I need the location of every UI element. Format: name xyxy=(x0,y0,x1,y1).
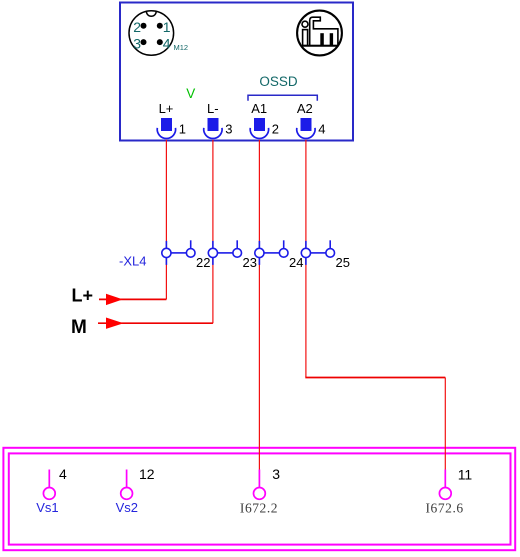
svg-text:OSSD: OSSD xyxy=(259,74,298,89)
svg-text:Vs1: Vs1 xyxy=(36,500,58,515)
svg-text:L+: L+ xyxy=(159,101,174,116)
svg-text:12: 12 xyxy=(139,466,155,482)
svg-text:L-: L- xyxy=(207,101,219,116)
svg-text:25: 25 xyxy=(336,255,350,270)
svg-text:22: 22 xyxy=(196,255,210,270)
svg-text:I672.6: I672.6 xyxy=(426,500,464,515)
svg-text:I672.2: I672.2 xyxy=(240,500,278,515)
svg-text:M: M xyxy=(71,317,87,338)
svg-text:2: 2 xyxy=(133,19,141,35)
svg-text:3: 3 xyxy=(272,466,280,482)
svg-text:2: 2 xyxy=(272,122,279,137)
svg-text:A1: A1 xyxy=(251,101,267,116)
svg-text:A2: A2 xyxy=(297,101,313,116)
svg-text:L+: L+ xyxy=(72,285,94,305)
svg-text:M12: M12 xyxy=(174,43,189,52)
svg-text:1: 1 xyxy=(179,122,186,137)
svg-text:24: 24 xyxy=(289,255,303,270)
svg-text:V: V xyxy=(186,86,195,101)
svg-text:3: 3 xyxy=(225,122,232,137)
svg-text:1: 1 xyxy=(163,19,171,35)
svg-text:Vs2: Vs2 xyxy=(116,500,138,515)
svg-text:23: 23 xyxy=(243,255,257,270)
svg-text:4: 4 xyxy=(163,35,171,51)
svg-text:-XL4: -XL4 xyxy=(119,254,146,269)
svg-text:11: 11 xyxy=(458,466,473,482)
svg-text:3: 3 xyxy=(133,35,141,51)
svg-text:4: 4 xyxy=(318,122,325,137)
svg-text:4: 4 xyxy=(59,466,67,482)
